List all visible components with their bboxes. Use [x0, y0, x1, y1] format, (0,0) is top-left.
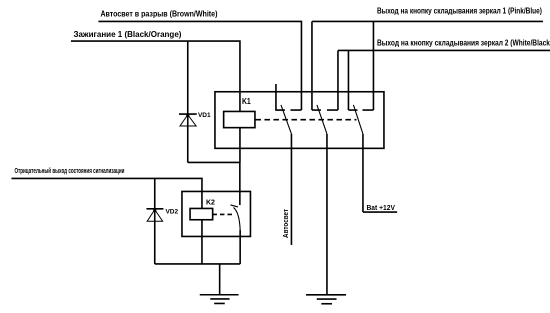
svg-text:Автосвет в разрыв (Brown/White: Автосвет в разрыв (Brown/White): [100, 10, 217, 19]
contact K1.2 right foot: [327, 109, 338, 111]
svg-text:Зажигание 1 (Black/Orange): Зажигание 1 (Black/Orange): [73, 30, 181, 39]
wire: K1 coil bottom to VD1 bottom junction: [188, 161, 240, 163]
svg-text:Выход на кнопку складывания зе: Выход на кнопку складывания зеркал 2 (Wh…: [377, 38, 550, 47]
diode VD2 branch wire: [154, 178, 156, 264]
wire: drop to pole3 left terminal: [347, 50, 349, 110]
wire: junction down to K2 contact: [239, 162, 241, 205]
wire: K1.3 common down to Bat +12V: [362, 134, 364, 212]
relay K2 linkage dashed line: [212, 213, 233, 215]
relay K1 linkage dashed line: [255, 119, 356, 121]
wire: bottom junction horizontal: [155, 263, 240, 265]
diode VD1 cathode bar: [179, 113, 197, 115]
wire: mirrors 1 horizontal: [312, 20, 543, 22]
contact K2 fixed tick: [230, 205, 238, 207]
contact K1.2 left foot: [312, 109, 321, 111]
relay K2 box: [182, 191, 251, 236]
wire: mirrors 2 horizontal: [338, 49, 550, 51]
wire: negative output horizontal into K2 coil: [11, 178, 202, 208]
wire: K1.1 common down (Autosvet output): [290, 134, 292, 245]
contact K1.3 movable arm: [353, 105, 363, 134]
svg-text:K1: K1: [242, 96, 251, 106]
svg-text:K2: K2: [206, 197, 215, 206]
diode VD2 cathode bar: [146, 208, 163, 210]
contact K1.1 NO foot: [290, 109, 301, 111]
svg-text:Отрицательный выход состояния: Отрицательный выход состояния сигнализац…: [14, 166, 124, 175]
svg-text:Bat +12V: Bat +12V: [366, 203, 395, 212]
diode VD2 triangle: [147, 210, 163, 222]
wire: K2 coil bottom: [201, 220, 203, 264]
contact K1.2 movable arm: [317, 105, 327, 134]
wire: K1.2 common down to ground: [326, 134, 328, 295]
diode VD1 branch wire: [187, 41, 189, 162]
relay K1 box: [215, 92, 384, 149]
ground right: [306, 294, 346, 296]
svg-text:Выход на кнопку складывания зе: Выход на кнопку складывания зеркал 1 (Pi…: [377, 7, 542, 16]
wire: zazhiganie horizontal into K1 coil: [71, 41, 240, 112]
wire: Bat +12V underline: [363, 211, 397, 213]
diode VD1 junction dot: [186, 114, 189, 117]
contact K1.1 movable arm: [281, 105, 292, 134]
contact K1.1 NC stub terminal: [276, 84, 285, 110]
contact K2 movable arm: [233, 207, 240, 230]
svg-text:VD2: VD2: [165, 208, 178, 215]
wire: K1 coil bottom down to junction: [239, 128, 241, 163]
wire: ground stem left: [219, 264, 221, 295]
wire: K2 contact down: [239, 230, 241, 264]
diode VD1 triangle: [180, 115, 196, 126]
wire: drop to pole3 right terminal: [372, 21, 374, 110]
svg-text:Автосвет: Автосвет: [281, 209, 290, 238]
wire: autosvet top horizontal: [98, 21, 301, 110]
relay K2 coil: [190, 208, 213, 219]
svg-text:VD1: VD1: [198, 112, 211, 119]
diode VD2 junction dot: [153, 209, 156, 212]
ground left: [200, 294, 239, 296]
wire: drop to pole2 right terminal: [337, 50, 339, 110]
contact K1.3 left foot: [348, 109, 357, 111]
relay K1 coil: [224, 111, 255, 127]
wire: drop to pole2 left terminal: [311, 21, 313, 110]
contact K1.3 right foot: [362, 109, 373, 111]
